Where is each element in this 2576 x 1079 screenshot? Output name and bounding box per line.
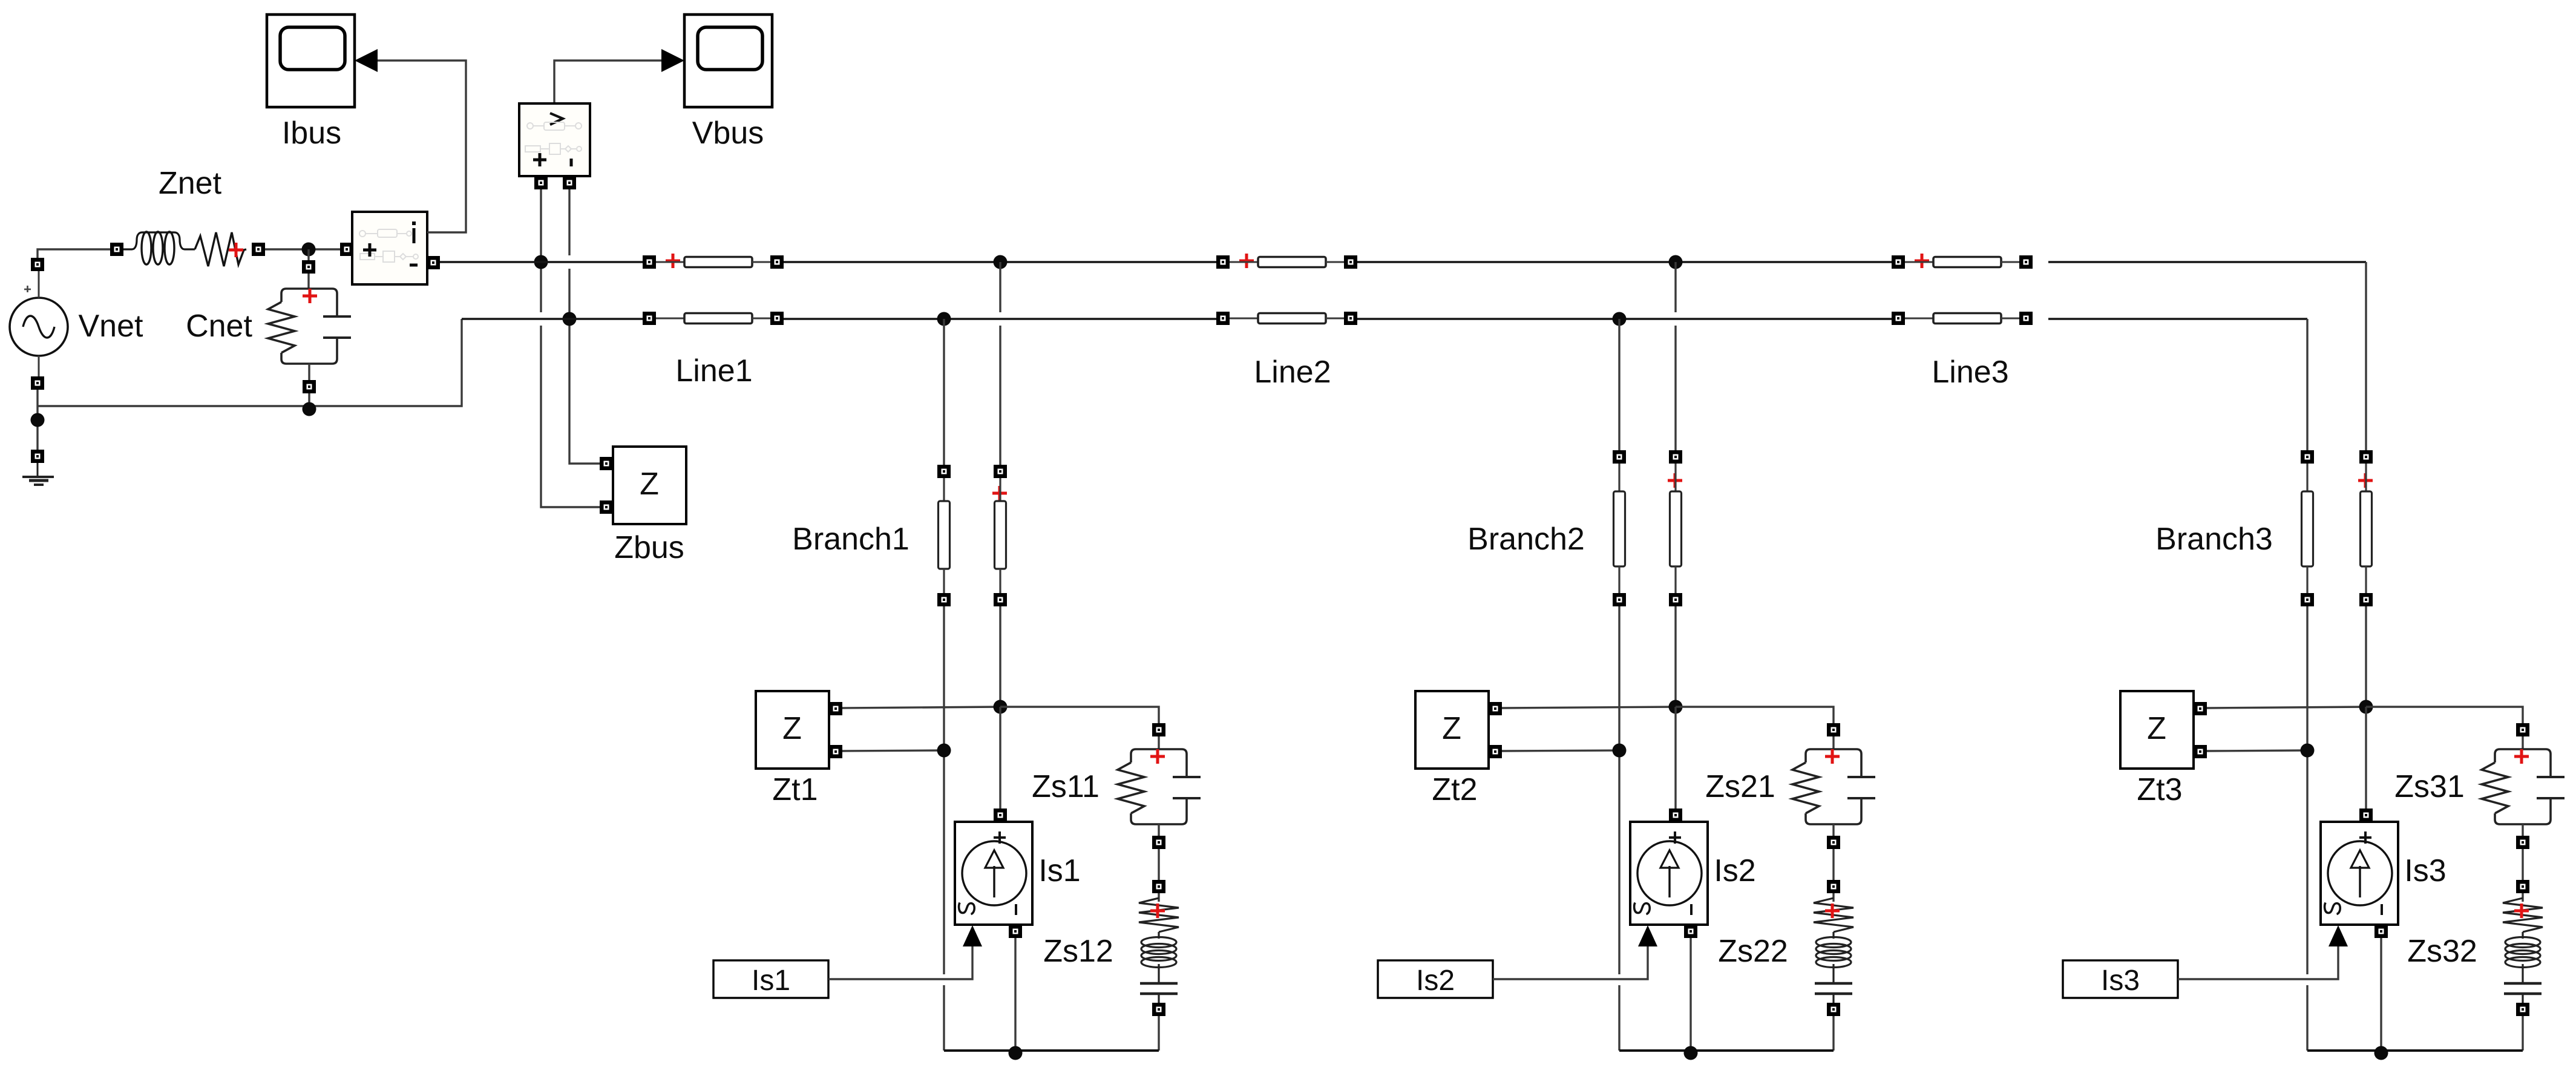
- resistor-capacitor Zs31 parallel RC: [2482, 749, 2565, 824]
- port Zs11 +: [1152, 723, 1165, 736]
- wire Zs32 stem: [2522, 893, 2523, 902]
- wire bottom bus segment 2: [784, 318, 1216, 320]
- node Is1 top: [994, 700, 1008, 714]
- wire Zt1 top to node: [842, 707, 1000, 708]
- wire Branch2 right column upper b: [1674, 326, 1676, 450]
- port current measurement output: [427, 256, 440, 269]
- wire top bus segment 1: [440, 261, 643, 263]
- node Branch1 right on top bus: [994, 255, 1008, 269]
- port Zt1 2: [829, 745, 842, 758]
- svg-text:Is3: Is3: [2404, 853, 2446, 888]
- wire Zs31 stem: [2522, 736, 2523, 749]
- wire left column lower a section 3: [2306, 750, 2308, 974]
- signal source block Is2: [1378, 960, 1493, 998]
- port Zs21 +: [1827, 723, 1840, 736]
- wire bottom rail section 2: [1619, 1049, 1834, 1052]
- node Branch2 left on bottom bus: [1613, 312, 1627, 326]
- port Zs22 -: [1827, 1003, 1840, 1016]
- port Zt3 2: [2194, 745, 2207, 758]
- port Zs21 -: [1827, 836, 1840, 849]
- capacitor-resistor Cnet parallel RC: [268, 289, 351, 364]
- wire Is3 - to bottom rail: [2380, 938, 2382, 1051]
- AC voltage source Vnet: [10, 271, 68, 376]
- svg-text:Branch1: Branch1: [792, 522, 909, 557]
- wire Branch1 left column upper: [943, 319, 945, 465]
- node Is3 - on bottom rail: [2374, 1046, 2388, 1060]
- wire Is1 - to bottom rail: [1014, 938, 1016, 1051]
- port Zbus 1: [600, 457, 613, 470]
- wire Branch2 right column upper a: [1674, 262, 1676, 312]
- wire Branch2 left to Zt node: [1618, 606, 1620, 750]
- svg-text:Zs22: Zs22: [1718, 934, 1788, 969]
- node Cnet ground junction: [303, 402, 316, 416]
- wire bottom bus segment 1: [462, 318, 643, 320]
- voltage measurement block: [519, 103, 590, 176]
- wire top bus segment 4: [2048, 261, 2366, 263]
- wire Is2 tag to source input: [1493, 946, 1648, 979]
- wire Zs11 stem: [1158, 736, 1159, 749]
- wire left column lower b section 1: [943, 985, 945, 1051]
- svg-text:Branch2: Branch2: [1467, 522, 1585, 557]
- red polarity mark Branch1: [992, 486, 1007, 500]
- node Branch2 right on top bus: [1669, 255, 1683, 269]
- branch element Branch1 left: [937, 465, 951, 606]
- svg-text:Is2: Is2: [1416, 965, 1455, 997]
- wire Branch1 right column upper b: [999, 326, 1001, 465]
- wire Vnet to ground: [36, 390, 38, 450]
- svg-text:Cnet: Cnet: [186, 309, 252, 344]
- port Cnet -: [303, 380, 316, 393]
- wire Branch3 right column upper: [2365, 262, 2367, 450]
- branch element Branch2 right: [1669, 450, 1682, 606]
- red polarity mark Branch3: [2358, 473, 2373, 488]
- wire bottom rail section 1: [944, 1049, 1159, 1052]
- svg-text:Zs12: Zs12: [1043, 934, 1113, 969]
- wire Zt1 bottom to node: [842, 750, 944, 751]
- resistor-inductor-capacitor Zs32 series RLC: [2503, 898, 2543, 1003]
- svg-text:Zt2: Zt2: [1432, 772, 1477, 807]
- port Znet right: [252, 243, 265, 256]
- wire Zs32 to bottom rail: [2522, 1016, 2523, 1051]
- wire Znet to current measurement: [265, 248, 340, 250]
- port Zs12 -: [1152, 1003, 1165, 1016]
- controlled current source Is1: [955, 822, 1032, 925]
- wire Zt3 bottom to node: [2207, 750, 2307, 751]
- svg-text:Zbus: Zbus: [614, 530, 684, 565]
- wire Cnet to ground rail: [308, 393, 310, 406]
- wire Branch1 right to Is node: [999, 606, 1001, 707]
- inductor Znet L: [123, 232, 195, 264]
- svg-text:Is2: Is2: [1714, 853, 1755, 888]
- wire node to Is2 source: [1674, 707, 1676, 810]
- branch element Branch3 right: [2359, 450, 2373, 606]
- input arrowhead Is2: [1638, 925, 1657, 946]
- node Is1 - on bottom rail: [1009, 1046, 1023, 1060]
- node Is2 top: [1669, 700, 1683, 714]
- wire bottom bus segment 4: [2048, 318, 2307, 320]
- svg-text:Is1: Is1: [1038, 853, 1080, 888]
- wire Branch2 left column upper: [1618, 319, 1620, 450]
- port Vnet -: [31, 376, 44, 390]
- svg-text:Zs11: Zs11: [1032, 769, 1100, 804]
- wire Zs11 bottom stem: [1158, 824, 1159, 836]
- port Is1 +: [994, 808, 1007, 822]
- wire Branch2 right to Is node: [1674, 606, 1676, 707]
- port Zt1 1: [829, 702, 842, 715]
- wire to Zbus lower port: [541, 326, 600, 507]
- port Vnet +: [31, 258, 44, 271]
- branch element Branch1 right: [994, 465, 1007, 606]
- wire node to Is3 source: [2365, 707, 2367, 810]
- svg-text:Line1: Line1: [675, 353, 752, 389]
- port Zt2 2: [1489, 745, 1502, 758]
- port Zs32 -: [2516, 1003, 2529, 1016]
- current measurement block: [352, 212, 427, 284]
- wire Is1 tag to source input: [828, 946, 972, 979]
- wire node to Zs21: [1676, 707, 1834, 723]
- port Is2 +: [1669, 808, 1682, 822]
- node V+ on top bus: [534, 255, 548, 269]
- input arrowhead Is1: [963, 925, 982, 946]
- wire Zs12 to bottom rail: [1158, 1016, 1159, 1051]
- port voltage measurement -: [568, 176, 571, 183]
- svg-text:Z: Z: [782, 711, 802, 746]
- controlled current source Is3: [2321, 822, 2398, 925]
- wire Zs21 bottom stem: [1832, 824, 1834, 836]
- wire Zs21 to Zs22: [1832, 849, 1834, 880]
- port Cnet +: [302, 260, 315, 274]
- svg-text:Vnet: Vnet: [79, 309, 144, 344]
- port Is1 -: [1009, 925, 1022, 938]
- arrowhead into Ibus: [355, 49, 378, 72]
- wire node to Cnet: [307, 249, 309, 260]
- wire Vnet top to Znet: [38, 249, 110, 258]
- wire Branch1 right column upper a: [999, 262, 1001, 312]
- impedance measurement Zt1: [756, 691, 829, 769]
- port Zbus 2: [600, 500, 613, 514]
- node Cnet tap: [302, 243, 316, 257]
- wire left column lower b section 2: [1618, 985, 1620, 1051]
- svg-text:Is1: Is1: [752, 965, 790, 997]
- wire Branch1 left to Zt node: [943, 606, 945, 750]
- resistor Znet R: [195, 232, 246, 266]
- wire top bus segment 3: [1357, 261, 1892, 263]
- node Is2 - on bottom rail: [1684, 1046, 1698, 1060]
- port Zs11 -: [1152, 836, 1165, 849]
- wire node to Zs11: [1000, 707, 1159, 723]
- wire V+ continues: [540, 269, 542, 312]
- svg-text:Vbus: Vbus: [692, 116, 764, 151]
- wire Zs31 to Zs32: [2522, 849, 2523, 880]
- wire bottom rail section 3: [2307, 1049, 2523, 1052]
- signal source block Is3: [2063, 960, 2178, 998]
- port Is2 -: [1684, 925, 1697, 938]
- wire top bus segment 2: [784, 261, 1216, 263]
- node Is3 top: [2359, 700, 2373, 714]
- node Zt1 bottom: [937, 744, 951, 758]
- port Is3 -: [2374, 925, 2388, 938]
- red polarity mark Branch2: [1668, 473, 1682, 488]
- wire left column lower a section 2: [1618, 750, 1620, 974]
- wire Is2 - to bottom rail: [1689, 938, 1691, 1051]
- port Zt2 1: [1489, 702, 1502, 715]
- wire Cnet bottom stem: [308, 364, 310, 380]
- port ground: [31, 450, 44, 463]
- svg-text:Line2: Line2: [1254, 355, 1331, 390]
- wire Zs11 to Zs12: [1158, 849, 1159, 880]
- line block Line1 upper: [643, 254, 784, 269]
- wire Cnet stem: [307, 274, 309, 289]
- ground symbol: [22, 463, 54, 485]
- resistor-capacitor Zs11 parallel RC: [1118, 749, 1201, 824]
- resistor-inductor-capacitor Zs12 series RLC: [1139, 898, 1179, 1003]
- impedance measurement Zbus: [613, 447, 686, 524]
- wire node to Zs31: [2366, 707, 2523, 723]
- wire Zs12 stem: [1158, 893, 1159, 902]
- svg-text:Znet: Znet: [159, 166, 222, 201]
- wire Zs22 to bottom rail: [1832, 1016, 1834, 1051]
- line block Line2 upper: [1216, 254, 1357, 269]
- wire Is3 tag to source input: [2178, 946, 2338, 979]
- wire i output to Ibus scope: [378, 61, 466, 232]
- svg-text:Zt1: Zt1: [772, 772, 818, 807]
- node Zt2 bottom: [1613, 744, 1627, 758]
- wire ground rail to bottom bus: [38, 319, 462, 406]
- resistor-inductor-capacitor Zs22 series RLC: [1814, 898, 1853, 1003]
- impedance measurement Zt3: [2120, 691, 2194, 769]
- controlled current source Is2: [1630, 822, 1708, 925]
- arrowhead into Vbus: [661, 49, 684, 72]
- signal source block Is1: [713, 960, 828, 998]
- wire Zt2 bottom to node: [1502, 750, 1619, 751]
- wire Zt2 top to node: [1502, 707, 1676, 708]
- svg-text:Zs32: Zs32: [2407, 934, 2477, 969]
- port Zs31 -: [2516, 836, 2529, 849]
- wire Branch3 left to Zt node: [2306, 606, 2308, 750]
- impedance measurement Zt2: [1415, 691, 1489, 769]
- scope Ibus: [267, 15, 355, 107]
- line block Line2 lower: [1216, 312, 1357, 325]
- resistor-capacitor Zs21 parallel RC: [1792, 749, 1875, 824]
- input arrowhead Is3: [2329, 925, 2348, 946]
- svg-text:Z: Z: [1442, 711, 1461, 746]
- port Zs22 +: [1827, 880, 1840, 893]
- wire bottom bus segment 3: [1357, 318, 1892, 320]
- node Zt3 bottom: [2301, 744, 2315, 758]
- wire voltage measurement to Vbus scope: [554, 61, 661, 103]
- line block Line3 lower: [1892, 312, 2033, 325]
- branch element Branch2 left: [1613, 450, 1626, 606]
- svg-text:Zs31: Zs31: [2394, 769, 2465, 804]
- node Branch1 left on bottom bus: [937, 312, 951, 326]
- svg-text:Z: Z: [640, 467, 659, 502]
- port voltage measurement +: [539, 176, 543, 183]
- svg-text:Line3: Line3: [1932, 355, 2008, 390]
- svg-text:Z: Z: [2147, 711, 2166, 746]
- port Zs31 +: [2516, 723, 2529, 736]
- svg-text:Branch3: Branch3: [2155, 522, 2273, 557]
- port Zs12 +: [1152, 880, 1165, 893]
- svg-text:Is3: Is3: [2101, 965, 2140, 997]
- branch element Branch3 left: [2301, 450, 2314, 606]
- wire Branch3 left column upper: [2306, 319, 2308, 450]
- wire Zt3 top to node: [2207, 707, 2366, 708]
- wire Zs22 stem: [1832, 893, 1834, 902]
- port Zs32 +: [2516, 880, 2529, 893]
- port Is3 +: [2359, 808, 2373, 822]
- wire to Zbus upper port: [569, 319, 600, 464]
- node Vnet ground junction: [31, 413, 45, 427]
- wire node to Is1 source: [999, 707, 1001, 810]
- svg-text:Ibus: Ibus: [282, 116, 341, 151]
- svg-text:Zt3: Zt3: [2137, 772, 2182, 807]
- wire V- to bottom bus: [568, 269, 570, 319]
- svg-text:Zs21: Zs21: [1705, 769, 1775, 804]
- wire V+ to top bus: [540, 189, 542, 262]
- port current measurement input: [340, 243, 353, 256]
- port Zt3 1: [2194, 702, 2207, 715]
- node V- on bottom bus: [563, 312, 577, 326]
- wire left column lower a section 1: [943, 750, 945, 974]
- wire Branch3 right to Is node: [2365, 606, 2367, 707]
- line block Line3 upper: [1892, 254, 2033, 269]
- scope Vbus: [684, 15, 772, 107]
- wire V- upper segment: [568, 189, 570, 255]
- line block Line1 lower: [643, 312, 784, 325]
- port Znet left: [110, 243, 123, 256]
- wire left column lower b section 3: [2306, 985, 2308, 1051]
- wire Zs21 stem: [1832, 736, 1834, 749]
- wire Zs31 bottom stem: [2522, 824, 2523, 836]
